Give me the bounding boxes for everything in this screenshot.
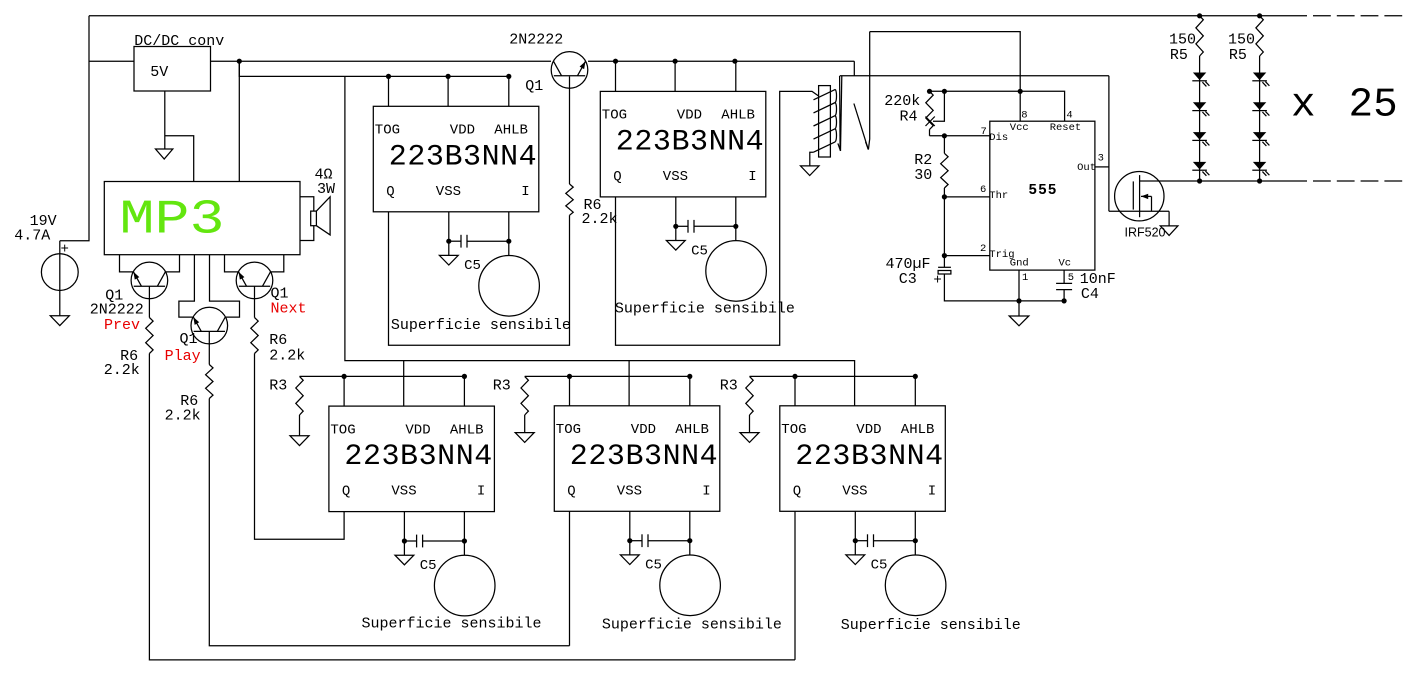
wire LED bottom bus dashed bbox=[1313, 180, 1403, 182]
touch sensor IC U6 223B3NN4 with C5 and sensing surface bbox=[780, 376, 946, 616]
LED D2 col x=1259.6 bbox=[1253, 102, 1266, 110]
svg-text:Superficie sensibile: Superficie sensibile bbox=[391, 317, 571, 334]
LED D3 col x=1199.6 bbox=[1193, 132, 1206, 140]
svg-text:25: 25 bbox=[1349, 83, 1398, 129]
ground below 555 bbox=[1009, 316, 1029, 326]
resistor R6 Next 2.2k bbox=[251, 318, 258, 354]
wire Prev long run to sensor 5 Q bbox=[149, 354, 795, 660]
ground below DC/DC bbox=[156, 149, 173, 159]
wire R4 bottom to Dis pin 7 bbox=[930, 135, 990, 137]
svg-text:2.2k: 2.2k bbox=[104, 362, 140, 379]
node C4 gnd junction bbox=[1062, 298, 1067, 303]
resistor R3 sensor5 bbox=[746, 376, 753, 415]
touch sensor IC U5 223B3NN4 with C5 and sensing surface bbox=[554, 376, 720, 616]
svg-text:555: 555 bbox=[1028, 183, 1057, 199]
resistor R3 sensor4 bbox=[521, 376, 528, 415]
MP3 player block bbox=[104, 182, 300, 255]
wire Next run to sensor 3 Q bbox=[255, 354, 345, 540]
svg-text:150: 150 bbox=[1228, 32, 1255, 49]
node gnd bus bbox=[1016, 298, 1021, 303]
svg-text:Gnd: Gnd bbox=[1010, 258, 1029, 270]
touch sensor IC U2 223B3NN4 with C5 and sensing surface bbox=[373, 76, 539, 316]
svg-text:3: 3 bbox=[1098, 153, 1104, 165]
svg-text:3W: 3W bbox=[317, 181, 335, 198]
node LED column top x=1199.6 bbox=[1197, 13, 1202, 18]
wire MOSFET drain to LED bus bbox=[1140, 180, 1307, 182]
transistor Q1 Play bbox=[191, 307, 228, 344]
touch sensor IC U4 223B3NN4 with C5 and sensing surface bbox=[329, 376, 495, 616]
svg-text:Play: Play bbox=[165, 348, 201, 365]
transistor Q1 Prev 2N2222 bbox=[131, 262, 168, 299]
wire DC/DC output to junction bbox=[211, 60, 240, 62]
svg-text:x: x bbox=[1291, 83, 1316, 129]
wire sensor2 Q loop to relay coil bbox=[616, 91, 819, 345]
capacitor C4 10nF bbox=[1056, 282, 1072, 284]
relay coil core bbox=[819, 86, 831, 157]
wire MP3 to Q1 Prev collector bbox=[165, 255, 179, 272]
wire MP3 to Q1 Play base bbox=[179, 255, 195, 317]
LED D4 col x=1199.6 bbox=[1193, 162, 1206, 170]
LED D1 col x=1199.6 bbox=[1193, 73, 1206, 81]
svg-text:R3: R3 bbox=[269, 378, 287, 395]
wire R2 to Thr pin 6 bbox=[943, 188, 945, 197]
svg-text:+: + bbox=[933, 273, 941, 289]
wire out rail down to MOSFET gate bbox=[1108, 76, 1110, 212]
resistor R6 Prev 2.2k bbox=[146, 318, 153, 354]
svg-text:Dis: Dis bbox=[989, 132, 1008, 144]
node LED column top x=1259.6 bbox=[1257, 13, 1262, 18]
svg-text:Vc: Vc bbox=[1059, 258, 1072, 270]
wire R4 rail to Reset pin 4 bbox=[930, 91, 1065, 121]
resistor R5 150 at x=1259.6 bbox=[1256, 16, 1263, 56]
wire MOSFET gate/source bottom bbox=[1109, 210, 1169, 212]
svg-text:5: 5 bbox=[1068, 272, 1074, 284]
current source V1 19V 4.7A bbox=[41, 254, 78, 291]
node LED column bottom x=1199.6 bbox=[1197, 178, 1202, 183]
wire sensor1 Q loop bbox=[389, 212, 570, 345]
wire Q1 Prev emitter down bbox=[148, 286, 150, 317]
svg-text:C4: C4 bbox=[1081, 286, 1099, 303]
ground below 19V source bbox=[50, 316, 69, 326]
svg-text:2.2k: 2.2k bbox=[269, 348, 305, 365]
svg-text:Prev: Prev bbox=[104, 317, 140, 334]
node Vcc rail junction bbox=[1018, 89, 1023, 94]
MOSFET arrow bbox=[1141, 195, 1152, 197]
node 2N2222 wire sensor2 VDD bbox=[673, 59, 678, 64]
svg-text:7: 7 bbox=[981, 126, 987, 138]
node sensor1 VDD bbox=[446, 74, 451, 79]
svg-text:Next: Next bbox=[271, 301, 307, 318]
wire MP3 to Q1 Prev base bbox=[120, 255, 134, 272]
LED D2 col x=1199.6 bbox=[1193, 102, 1206, 110]
wire Play long run to sensor 4 Q bbox=[209, 399, 569, 646]
wire power drop to bottom row bbox=[345, 76, 855, 376]
transistor Q1 2N2222 top bbox=[551, 52, 588, 89]
wire C3 to ground bus bbox=[944, 274, 1064, 301]
wire R5 to LEDs x=1259.6 bbox=[1259, 56, 1261, 181]
svg-text:R4: R4 bbox=[900, 108, 918, 125]
svg-text:MP3: MP3 bbox=[120, 194, 225, 248]
ground below MOSFET bbox=[1160, 226, 1178, 236]
svg-text:4.7A: 4.7A bbox=[14, 228, 50, 245]
DC/DC converter block bbox=[134, 47, 211, 92]
LED D4 col x=1259.6 bbox=[1253, 162, 1266, 170]
node R4 wiper tap bbox=[942, 89, 947, 94]
relay contact needle 2 bbox=[854, 104, 868, 150]
ground below coil bbox=[801, 166, 820, 176]
LED D3 col x=1259.6 bbox=[1253, 132, 1266, 140]
wire 5V feed to DC/DC converter bbox=[89, 60, 134, 62]
wire Gnd pin 1 to ground bbox=[1018, 270, 1020, 316]
ground below R3 sensor3 bbox=[290, 436, 309, 446]
svg-text:R3: R3 bbox=[493, 378, 511, 395]
svg-text:R5: R5 bbox=[1170, 47, 1188, 64]
node sensor1 AHLB bbox=[506, 74, 511, 79]
resistor R2 30 bbox=[941, 153, 948, 188]
rail sensor3 row bbox=[300, 375, 465, 377]
wire Trig pin 2 bbox=[944, 255, 989, 257]
wire 5V bus to 2N2222 bbox=[239, 60, 551, 62]
svg-text:DC/DC conv: DC/DC conv bbox=[134, 33, 224, 50]
wire riser VDD sensor3 bbox=[403, 361, 405, 377]
resistor R4 220k trimmer bbox=[926, 91, 933, 129]
node 2N2222 wire sensor2 TOG bbox=[613, 59, 618, 64]
node junction 5V out bbox=[237, 59, 242, 64]
svg-text:5V: 5V bbox=[150, 64, 168, 81]
svg-text:4: 4 bbox=[1066, 109, 1072, 121]
svg-text:Q1: Q1 bbox=[525, 78, 543, 95]
svg-text:Vcc: Vcc bbox=[1010, 122, 1029, 134]
wire to R2 bbox=[943, 136, 945, 154]
wire MOSFET source to ground bbox=[1168, 211, 1170, 226]
wire Out pin 3 bbox=[1095, 166, 1109, 168]
IC 555 timer box bbox=[990, 121, 1095, 270]
resistor R3 sensor3 bbox=[296, 376, 303, 415]
wire top rail 5V bbox=[89, 15, 1307, 17]
svg-text:2: 2 bbox=[980, 243, 986, 255]
wire Thr to Trig bbox=[943, 197, 945, 256]
svg-text:+: + bbox=[61, 242, 69, 258]
svg-text:C3: C3 bbox=[899, 271, 917, 288]
LED D1 col x=1259.6 bbox=[1253, 73, 1266, 81]
wire 2N2222 emitter right bbox=[588, 60, 854, 62]
MOSFET IRF520 bbox=[1115, 172, 1164, 221]
node R4 top bbox=[927, 89, 932, 94]
rail sensor5 row bbox=[750, 375, 916, 377]
touch sensor IC U3 223B3NN4 with C5 and sensing surface bbox=[600, 61, 766, 301]
wire coil to ground bbox=[810, 152, 814, 166]
svg-text:Superficie sensibile: Superficie sensibile bbox=[615, 301, 795, 318]
wire MP3 to Q1 Play collector bbox=[210, 255, 240, 317]
wire Q1 Play emitter down bbox=[208, 331, 210, 364]
capacitor C3 470uF bbox=[943, 256, 945, 268]
resistor R5 150 at x=1199.6 bbox=[1196, 16, 1203, 56]
wire junction down to MP3 bbox=[238, 61, 240, 181]
svg-text:Out: Out bbox=[1077, 162, 1096, 174]
svg-text:30: 30 bbox=[914, 167, 932, 184]
svg-text:2.2k: 2.2k bbox=[582, 211, 618, 228]
svg-text:IRF520: IRF520 bbox=[1125, 226, 1166, 240]
wire DC/DC gnd branch to MP3 bbox=[165, 136, 194, 182]
svg-text:Superficie sensibile: Superficie sensibile bbox=[362, 615, 542, 632]
node sensor1 TOG bbox=[386, 74, 391, 79]
node Dis junction R2 bbox=[942, 133, 947, 138]
wire top rail dashed end bbox=[1313, 15, 1403, 17]
wire right rail from 2N2222 elbow bbox=[853, 61, 855, 75]
wire Vc pin 5 to C4 bbox=[1063, 270, 1065, 283]
svg-text:R5: R5 bbox=[1229, 47, 1247, 64]
svg-text:Superficie sensibile: Superficie sensibile bbox=[602, 617, 782, 634]
ground below R3 sensor4 bbox=[515, 433, 534, 443]
wire DC/DC ground stub bbox=[164, 91, 166, 149]
transistor Q1 Next bbox=[236, 262, 273, 299]
wire sensor5 Q stub down bbox=[794, 511, 796, 660]
svg-text:R3: R3 bbox=[720, 378, 738, 395]
wire 5V rail to sensor 1 bbox=[239, 61, 509, 76]
wire Q1 Next emitter down bbox=[254, 286, 256, 317]
ground below R3 sensor5 bbox=[740, 433, 759, 443]
wire MP3 to Q1 Next collector bbox=[271, 255, 284, 272]
wire needle2 loop to 555 Vcc pin 8 bbox=[870, 32, 1021, 122]
node Trig junction bbox=[942, 253, 947, 258]
wire MP3 to Q1 Next base bbox=[225, 255, 239, 272]
relay contact needle 1 bbox=[838, 76, 842, 151]
svg-text:8: 8 bbox=[1021, 109, 1027, 121]
R4 wiper arrow bbox=[926, 117, 935, 127]
wire sensor4 Q stub down bbox=[569, 511, 571, 645]
svg-text:6: 6 bbox=[980, 184, 986, 196]
wire R5 to LEDs x=1199.6 bbox=[1199, 56, 1201, 181]
resistor R6 sensor1 2.2k bbox=[566, 184, 573, 215]
svg-text:Thr: Thr bbox=[989, 190, 1008, 202]
node LED column bottom x=1259.6 bbox=[1257, 178, 1262, 183]
node 2N2222 wire sensor2 AHLB bbox=[732, 59, 737, 64]
wire left drop from top rail to 19V source bbox=[60, 16, 89, 241]
svg-text:R6: R6 bbox=[269, 332, 287, 349]
rail sensor4 row bbox=[525, 375, 690, 377]
relay coil winding bbox=[814, 89, 836, 99]
svg-text:Q1: Q1 bbox=[180, 331, 198, 348]
svg-text:2N2222: 2N2222 bbox=[509, 32, 563, 49]
svg-text:Superficie sensibile: Superficie sensibile bbox=[841, 617, 1021, 634]
speaker LS1 bbox=[300, 197, 314, 211]
svg-text:2.2k: 2.2k bbox=[165, 408, 201, 425]
resistor R6 Play 2.2k bbox=[206, 365, 213, 399]
wire 2N2222 base tail down bbox=[569, 76, 571, 184]
svg-text:150: 150 bbox=[1169, 32, 1196, 49]
svg-text:1: 1 bbox=[1022, 272, 1028, 284]
svg-text:Reset: Reset bbox=[1050, 122, 1082, 134]
wire riser VDD sensor4 bbox=[628, 361, 630, 377]
